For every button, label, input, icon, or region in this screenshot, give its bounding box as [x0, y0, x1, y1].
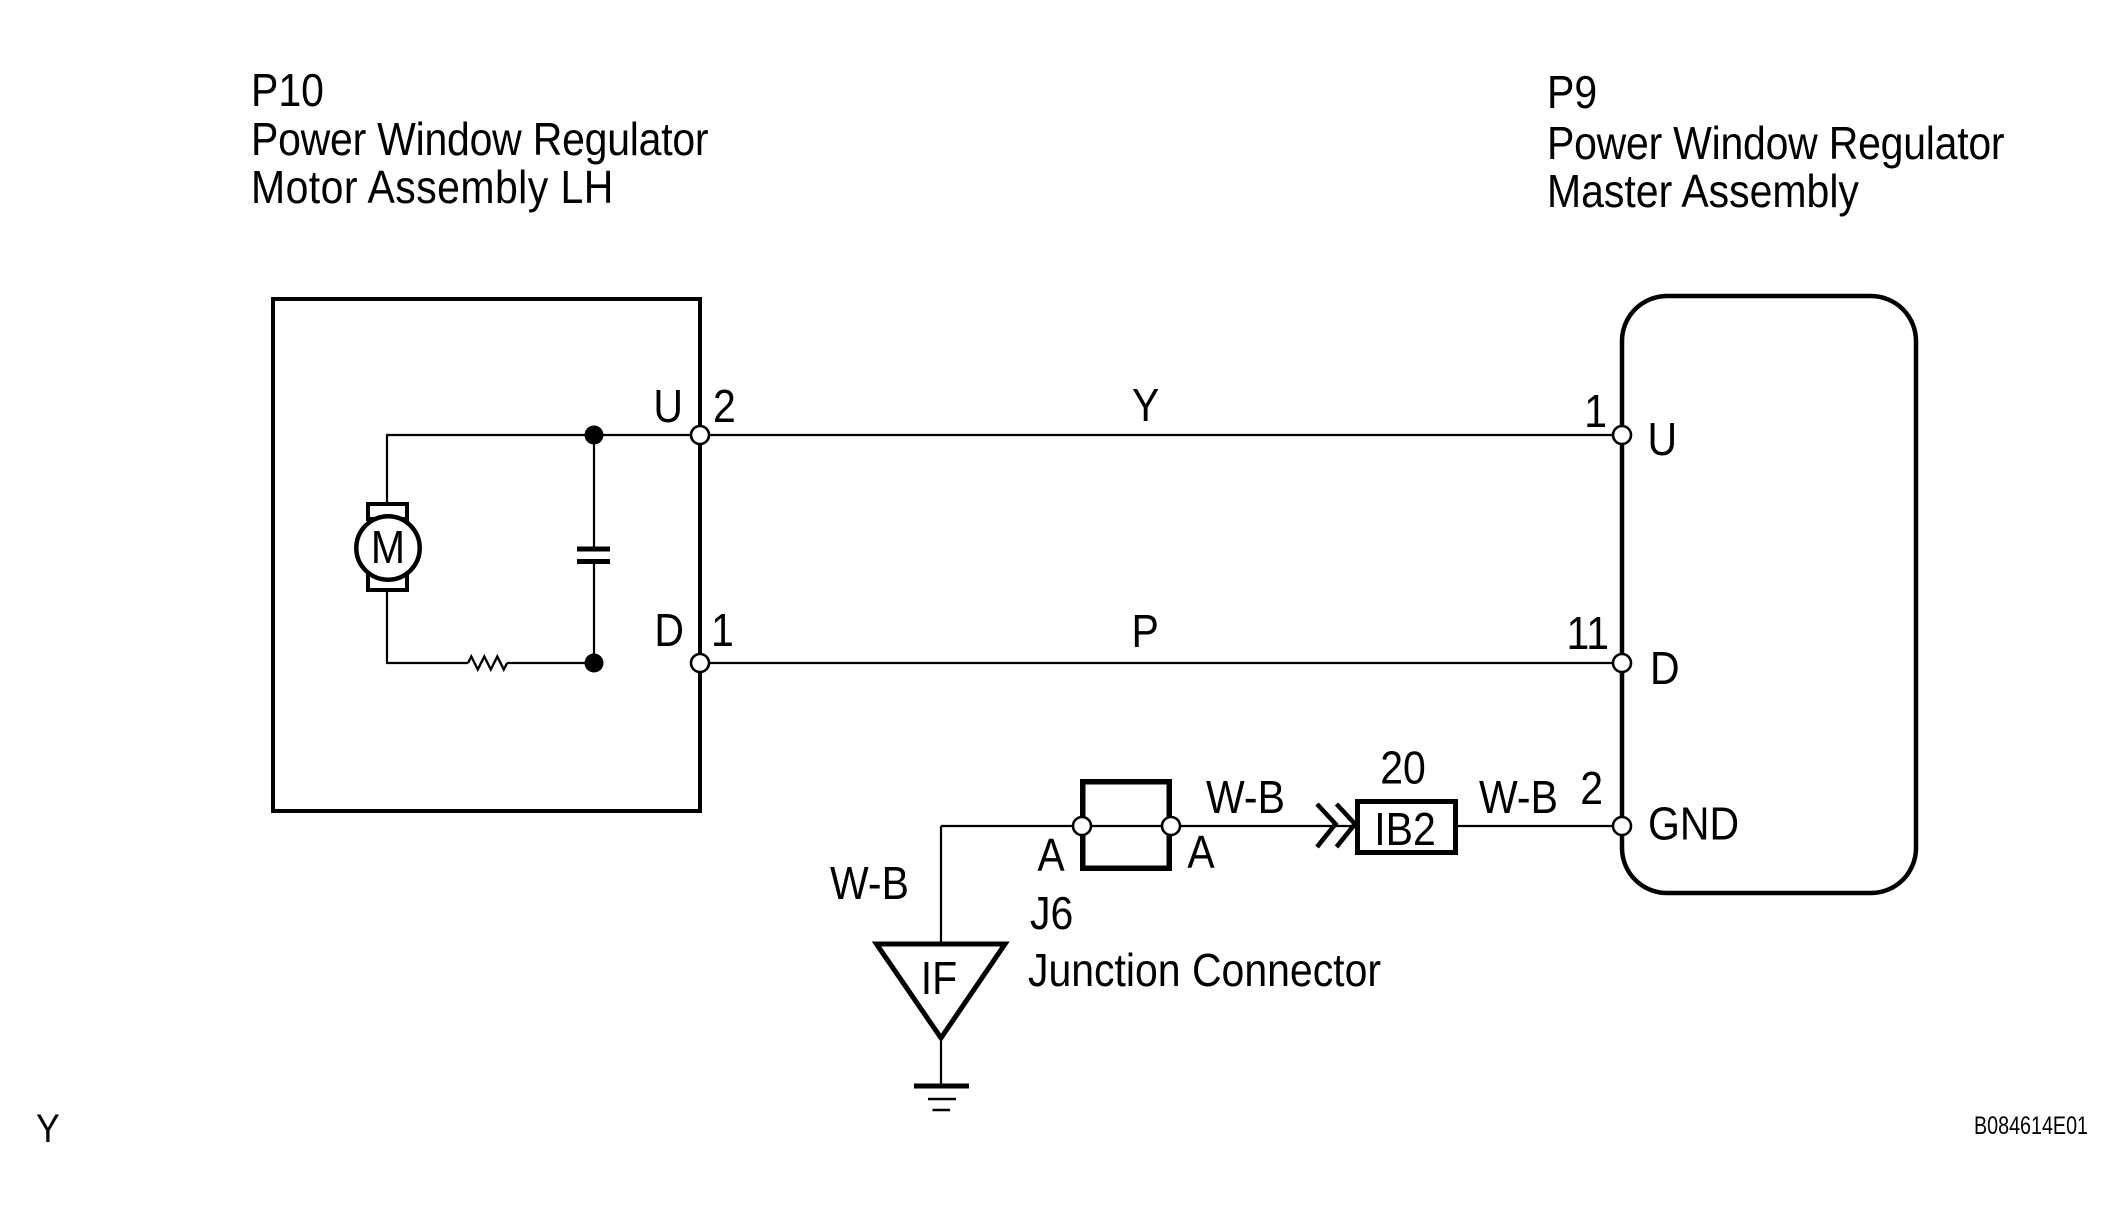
- motor M: [356, 504, 419, 590]
- svg-text:2: 2: [713, 382, 736, 433]
- pin U 2 of P10: [653, 382, 735, 444]
- connector P9 body: [1622, 296, 1916, 893]
- svg-text:A: A: [1187, 828, 1214, 879]
- svg-text:Y: Y: [36, 1107, 60, 1151]
- svg-text:A: A: [1037, 831, 1064, 882]
- junction connector J6 caption: [1028, 889, 1381, 997]
- wire: triangle to ground: [940, 1038, 942, 1086]
- junction connector J6 body: [1073, 782, 1180, 869]
- wire: motor bottom to resistor: [387, 590, 468, 663]
- pin 1 U of P9: [1584, 387, 1677, 466]
- svg-text:1: 1: [1584, 387, 1607, 438]
- svg-text:Motor Assembly LH: Motor Assembly LH: [251, 163, 614, 214]
- connector P10 title: [251, 66, 708, 214]
- svg-text:W-B: W-B: [1206, 773, 1285, 824]
- wire: node U to motor top: [387, 435, 594, 504]
- pin 2 GND of P9: [1580, 764, 1739, 850]
- svg-text:11: 11: [1566, 609, 1609, 660]
- pin D 1 of P10: [654, 606, 733, 672]
- svg-text:U: U: [1648, 415, 1678, 466]
- junction block IB2, pin 20: [1358, 743, 1456, 855]
- svg-text:Junction Connector: Junction Connector: [1028, 946, 1381, 997]
- svg-text:B084614E01: B084614E01: [1974, 1112, 2088, 1140]
- svg-text:Y: Y: [1132, 381, 1159, 432]
- svg-text:P9: P9: [1547, 68, 1597, 119]
- svg-text:1: 1: [711, 606, 734, 657]
- svg-text:D: D: [654, 606, 684, 657]
- shield triangle IF: [877, 944, 1006, 1038]
- splice arrows: [1317, 804, 1355, 847]
- svg-text:U: U: [653, 382, 683, 433]
- svg-text:2: 2: [1580, 764, 1603, 815]
- connector P9 title: [1547, 68, 2004, 218]
- svg-text:20: 20: [1380, 743, 1426, 794]
- resistor: [468, 657, 507, 670]
- wire: resistor to node D: [507, 662, 594, 664]
- node: junction dot upper: [585, 426, 604, 445]
- pin 11 D of P9: [1566, 609, 1679, 695]
- svg-text:W-B: W-B: [830, 859, 909, 910]
- svg-text:M: M: [371, 523, 405, 574]
- svg-text:Master Assembly: Master Assembly: [1547, 167, 1859, 218]
- wire W-B down to shield triangle: [940, 826, 942, 944]
- connector P10 body: [273, 299, 700, 811]
- wire: node U to pin 2: [594, 434, 700, 436]
- wire Y (pin 2 P10 to pin 1 P9): [700, 434, 1622, 436]
- svg-text:J6: J6: [1030, 889, 1073, 940]
- wire P (pin 1 P10 to pin 11 P9): [700, 662, 1622, 664]
- node: junction dot lower: [585, 654, 604, 673]
- capacitor: [577, 435, 610, 663]
- svg-text:W-B: W-B: [1479, 773, 1558, 824]
- svg-text:IB2: IB2: [1374, 805, 1436, 856]
- ground: [914, 1086, 969, 1110]
- svg-text:P10: P10: [251, 66, 324, 117]
- svg-text:GND: GND: [1648, 799, 1739, 850]
- wire W-B: junction connector to IB2 to pin 2 GND: [941, 825, 1622, 827]
- svg-text:IF: IF: [921, 954, 957, 1005]
- svg-text:D: D: [1650, 644, 1680, 695]
- svg-text:Power Window Regulator: Power Window Regulator: [1547, 119, 2004, 170]
- svg-text:P: P: [1132, 607, 1159, 658]
- svg-text:Power Window Regulator: Power Window Regulator: [251, 115, 708, 166]
